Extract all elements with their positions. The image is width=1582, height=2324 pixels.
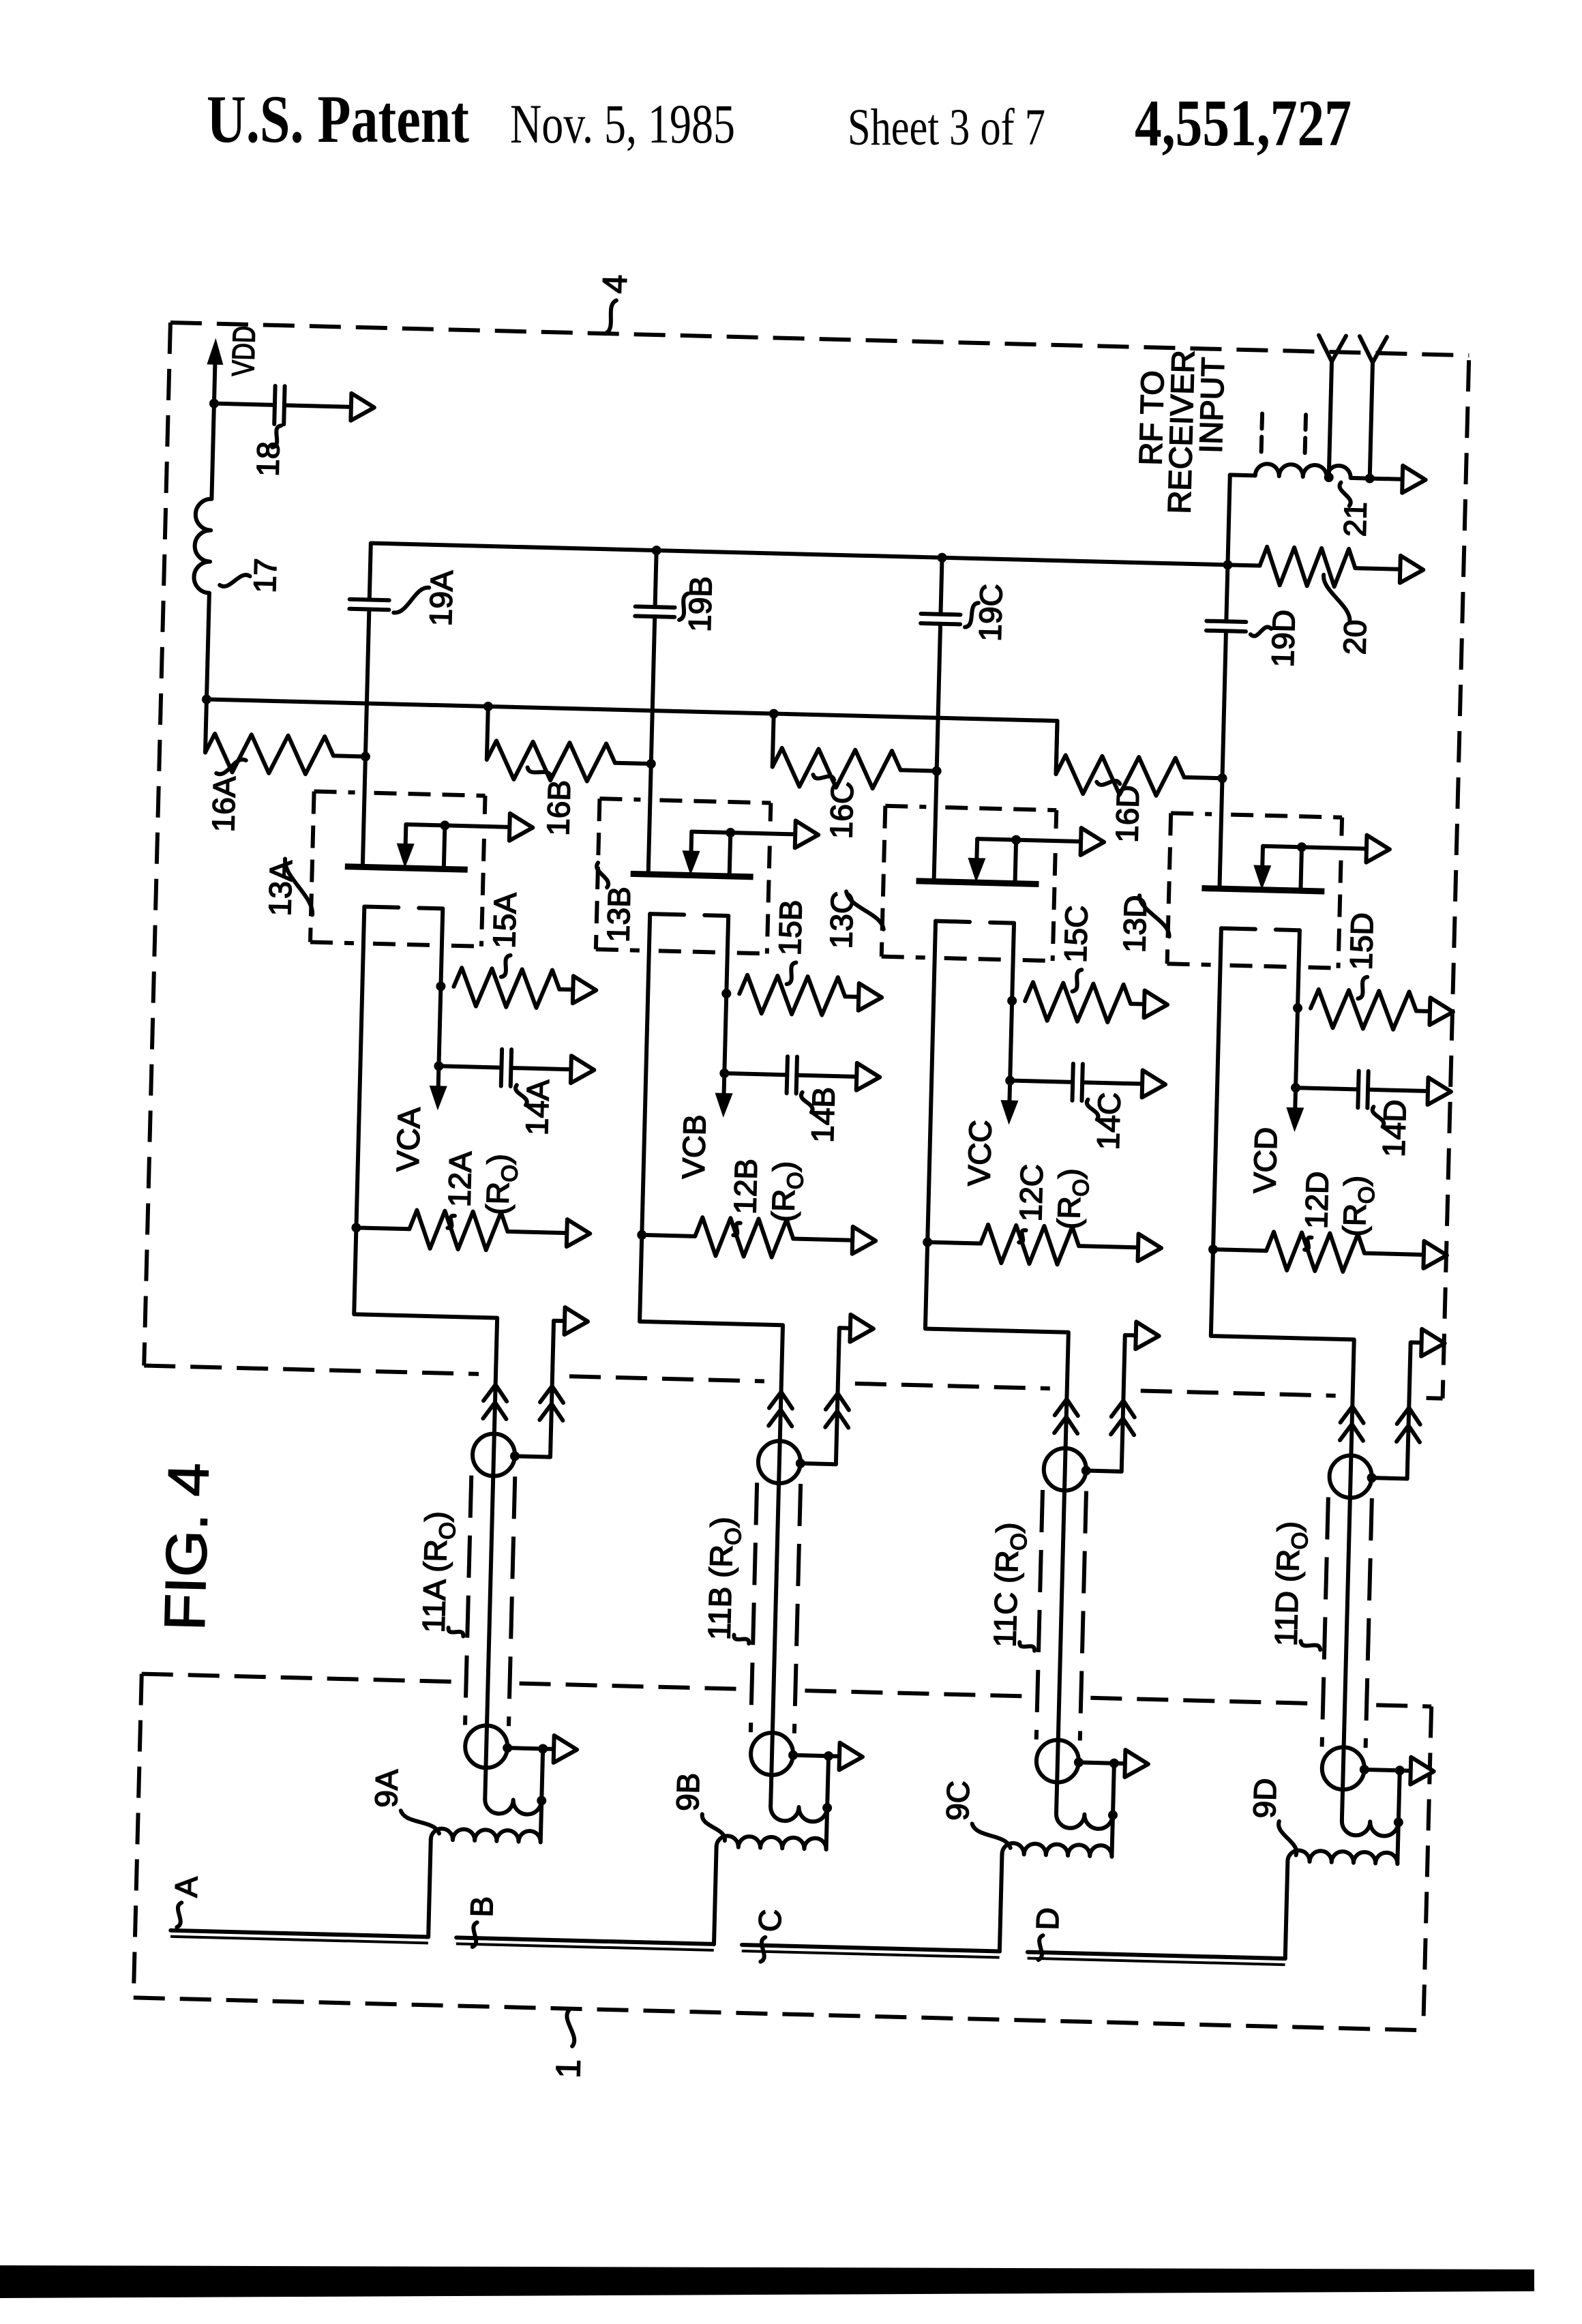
label 17: [220, 557, 283, 593]
wire top bus (19A-19D): [371, 543, 1228, 565]
label D: [1029, 1907, 1066, 1961]
wire gate-2 to terminal: [445, 825, 509, 826]
svg-text:U.S. Patent: U.S. Patent: [207, 81, 469, 157]
terminal arrow (TL upper C): [1135, 1322, 1159, 1350]
svg-text:(RO): (RO): [765, 1161, 808, 1223]
svg-text:13A: 13A: [262, 860, 299, 917]
svg-text:19C: 19C: [972, 584, 1009, 642]
label 16D: [1095, 780, 1146, 843]
terminal arrow (15D): [1429, 998, 1453, 1026]
capacitor 19A: [346, 543, 391, 757]
node 14D junction: [1291, 1083, 1300, 1092]
svg-text:11B (RO): 11B (RO): [701, 1517, 746, 1641]
chevron arrows (TL side A): [539, 1386, 563, 1420]
terminal arrow (12D): [1423, 1241, 1447, 1269]
terminal arrow (18 bypass): [350, 393, 374, 421]
label C: [751, 1909, 788, 1963]
antenna terminal 1: [1315, 336, 1346, 483]
resistor 16C: [772, 714, 938, 790]
label 11B (Ro): [701, 1517, 752, 1643]
label 13C: [823, 891, 884, 950]
capacitor 19B: [631, 550, 676, 764]
label 16B: [526, 767, 577, 836]
resistor 12B: [642, 1216, 853, 1260]
wire TL side arm lower A: [541, 1748, 543, 1800]
svg-text:VCB: VCB: [675, 1114, 712, 1180]
capacitor 14D: [1295, 1069, 1428, 1109]
resistor 12C: [927, 1223, 1138, 1267]
svg-text:18: 18: [250, 441, 286, 477]
wire source lead A down: [438, 986, 441, 1066]
inductor 17: [194, 403, 214, 593]
power symbol VDD (arrow): [206, 338, 224, 404]
wire TL side arm lower D: [1399, 1770, 1400, 1822]
chevron arrows (TL feed D): [1340, 1406, 1364, 1441]
svg-text:15C: 15C: [1058, 905, 1094, 964]
svg-text:13C: 13C: [823, 891, 860, 949]
label 13A: [262, 859, 314, 917]
label B: [463, 1896, 500, 1948]
wire gate-2 to terminal: [1302, 847, 1367, 848]
label 13B: [595, 863, 638, 942]
label 16A: [205, 758, 246, 833]
input trace C: [742, 1945, 1000, 1958]
transistor 13C: [913, 771, 1041, 1001]
input trace D: [1028, 1952, 1285, 1965]
wire TL side arm upper B: [836, 1328, 850, 1464]
svg-text:19D: 19D: [1265, 609, 1302, 668]
resistor 15B: [739, 974, 859, 1015]
terminal arrow (RF output top): [1402, 466, 1426, 494]
wire drain lead D down: [1213, 1002, 1219, 1249]
terminal arrow (TL bottom D): [1410, 1757, 1434, 1785]
control input VCD (arrow): [1285, 1088, 1304, 1133]
svg-text:12D: 12D: [1298, 1171, 1335, 1230]
svg-text:15A: 15A: [486, 892, 523, 949]
terminal arrow (14A): [571, 1056, 595, 1084]
label 19C: [964, 583, 1009, 642]
capacitor 19C: [917, 557, 962, 771]
svg-text:16C: 16C: [823, 781, 860, 839]
node 15C junction: [1007, 996, 1017, 1005]
transistor 13D dashed enclosure: [1167, 813, 1343, 968]
terminal arrow (14C): [1142, 1070, 1166, 1098]
svg-text:INPUT: INPUT: [1193, 357, 1232, 453]
capacitor 18: [274, 386, 284, 424]
inductor 9C: [1000, 1813, 1113, 1954]
capacitor 14A: [438, 1047, 571, 1088]
svg-text:15B: 15B: [772, 899, 809, 956]
svg-text:9D: 9D: [1247, 1778, 1283, 1819]
chevron arrows (TL side C): [1111, 1400, 1135, 1435]
label 19B: [679, 576, 719, 632]
node 19D / 20 / 21 junction: [1223, 560, 1232, 569]
wire inductor 17 to lower bus: [207, 593, 209, 700]
node lower bus left: [202, 694, 211, 704]
label 15C: [1057, 905, 1094, 992]
chevron arrows (TL side D): [1397, 1407, 1420, 1442]
resistor 20: [1227, 546, 1401, 588]
svg-text:17: 17: [247, 558, 283, 593]
svg-text:15D: 15D: [1343, 912, 1379, 970]
label 13D: [1116, 895, 1170, 953]
svg-text:D: D: [1030, 1907, 1066, 1931]
svg-text:VDD: VDD: [225, 325, 262, 376]
terminal arrow (TL upper D): [1421, 1329, 1445, 1357]
svg-text:A: A: [168, 1876, 205, 1898]
wire node to inductor 21: [1227, 475, 1229, 565]
label 14C: [1086, 1092, 1127, 1150]
node 16B / gate junction: [646, 759, 656, 769]
wire 12B node to transmission line: [627, 1235, 785, 1806]
node top bus / 19B: [652, 546, 661, 555]
wire TL side arm lower B: [827, 1756, 829, 1808]
antenna terminal 2: [1356, 336, 1387, 483]
svg-text:19A: 19A: [423, 569, 460, 626]
label 20: [1322, 575, 1374, 655]
inductor 21: [1230, 463, 1403, 479]
label 9A: [368, 1768, 441, 1833]
wire VDD node to capacitor 18: [214, 404, 275, 405]
label A: [167, 1876, 204, 1928]
svg-text:1: 1: [549, 2059, 588, 2079]
transmission line 11A top transformer: [472, 1433, 551, 1478]
winding (TL secondary) A: [485, 1794, 547, 1815]
wire 12D node to transmission line: [1199, 1249, 1356, 1821]
svg-text:14B: 14B: [805, 1086, 841, 1143]
svg-text:11D (RO): 11D (RO): [1268, 1521, 1313, 1647]
label 12C (Ro): [1012, 1163, 1094, 1244]
label 11C (Ro): [987, 1522, 1038, 1651]
node 15A junction: [436, 981, 445, 991]
capacitor 14C: [1010, 1062, 1143, 1103]
wire gate-2 to terminal: [1016, 840, 1081, 841]
svg-text:19B: 19B: [682, 576, 719, 632]
label 15B: [771, 899, 809, 985]
wire drain lead A down: [356, 980, 362, 1227]
dashed tick marks (inner border remnants): [1262, 414, 1306, 453]
wire lower bus (16A-16D feed): [205, 700, 1058, 775]
transmission line 11C bottom transformer: [1036, 1740, 1126, 1784]
winding (TL secondary) D: [1341, 1816, 1403, 1836]
transistor 13A: [342, 756, 470, 987]
svg-text:VCD: VCD: [1247, 1127, 1283, 1193]
terminal arrow (12C): [1138, 1234, 1162, 1262]
svg-text:13D: 13D: [1116, 895, 1153, 953]
transistor 13C dashed enclosure: [882, 806, 1057, 961]
svg-text:9C: 9C: [940, 1780, 976, 1821]
svg-text:Sheet 3 of 7: Sheet 3 of 7: [848, 99, 1045, 156]
transmission line 11B bottom transformer: [750, 1732, 840, 1776]
svg-text:11C (RO): 11C (RO): [987, 1522, 1032, 1648]
node 16D / gate junction: [1217, 773, 1227, 783]
node 12B junction: [637, 1230, 646, 1240]
resistor 16B: [486, 706, 653, 783]
label 9D: [1246, 1778, 1298, 1856]
transmission line 11C (Ro): [1036, 1490, 1086, 1741]
svg-text:FIG. 4: FIG. 4: [152, 1462, 220, 1631]
label 21: [1337, 482, 1374, 537]
node lower bus tap B: [483, 702, 493, 711]
capacitor 19D: [1203, 565, 1248, 779]
capacitor 14B: [724, 1055, 857, 1095]
label 12B (Ro): [726, 1158, 808, 1237]
transmission line 11C top transformer: [1043, 1448, 1122, 1492]
resistor 12D: [1212, 1230, 1424, 1274]
wire 12C node to transmission line: [913, 1242, 1071, 1814]
resistor 12A: [356, 1208, 567, 1252]
label 9B: [669, 1772, 727, 1841]
transmission line 11D bottom transformer: [1322, 1746, 1412, 1791]
transmission line 11B top transformer: [758, 1440, 837, 1485]
terminal arrow (12B): [852, 1227, 876, 1255]
resistor 15C: [1024, 982, 1144, 1023]
label 1: [549, 2010, 589, 2079]
terminal arrow (TL bottom C): [1124, 1750, 1148, 1778]
terminal arrow (14B): [856, 1063, 880, 1091]
transmission line 11A (Ro): [465, 1476, 515, 1727]
wire capacitor 18 to terminal: [284, 405, 351, 406]
label 15A: [486, 892, 523, 977]
inductor 9D: [1285, 1819, 1399, 1961]
chevron arrows (TL feed B): [768, 1392, 792, 1427]
inductor 9B: [714, 1805, 827, 1947]
label 14A: [514, 1079, 556, 1136]
transmission line 11B (Ro): [751, 1483, 801, 1733]
node 14C junction: [1005, 1075, 1015, 1085]
chevron arrows (TL feed C): [1054, 1399, 1078, 1433]
control input VCA (arrow): [429, 1066, 448, 1111]
label 15D: [1342, 912, 1379, 999]
svg-text:16B: 16B: [540, 779, 577, 836]
wire drain lead C down: [927, 995, 934, 1242]
svg-text:VCC: VCC: [961, 1120, 998, 1187]
svg-text:(RO): (RO): [479, 1153, 522, 1215]
terminal arrow (gate-2 bias A): [509, 814, 533, 841]
label 12D (Ro): [1298, 1171, 1379, 1251]
terminal arrow (TL bottom B): [839, 1743, 863, 1771]
svg-text:(RO): (RO): [1337, 1175, 1379, 1237]
label 14D: [1371, 1099, 1413, 1158]
label 19D: [1250, 609, 1302, 668]
wire 12A node to transmission line: [342, 1227, 499, 1799]
node 15B junction: [721, 989, 731, 998]
label 19A: [393, 569, 460, 627]
terminal arrow (14D): [1427, 1077, 1451, 1105]
input trace A: [170, 1931, 428, 1943]
svg-text:12A: 12A: [441, 1150, 478, 1207]
svg-text:20: 20: [1337, 619, 1373, 655]
node 15D junction: [1293, 1003, 1302, 1013]
node 16A / gate junction: [361, 751, 370, 761]
terminal arrow (gate-2 bias D): [1366, 835, 1390, 863]
resistor 15A: [453, 968, 573, 1009]
transistor 13B: [627, 763, 756, 994]
label 11D (Ro): [1268, 1521, 1324, 1650]
svg-text:16D: 16D: [1109, 785, 1146, 844]
svg-text:9B: 9B: [670, 1772, 706, 1812]
svg-text:VCA: VCA: [390, 1107, 427, 1172]
node top bus / 19C: [937, 553, 946, 563]
winding (TL secondary) B: [771, 1802, 833, 1822]
wire TL side arm upper A: [550, 1321, 565, 1457]
node lower bus tap C: [769, 709, 779, 718]
control input VCC (arrow): [1000, 1080, 1019, 1125]
wire drain lead B down: [642, 987, 648, 1235]
node 12D junction: [1208, 1245, 1218, 1254]
svg-text:21: 21: [1337, 501, 1373, 537]
wire source lead C down: [1010, 1001, 1012, 1081]
terminal arrow (TL bottom A): [554, 1735, 578, 1763]
label 4: [595, 274, 634, 334]
chevron arrows (TL side B): [825, 1393, 849, 1428]
wire TL side arm upper C: [1122, 1335, 1136, 1472]
dashed box 1 (antenna element enclosure): [134, 1674, 1431, 2031]
label 9C: [939, 1780, 1012, 1847]
svg-text:4: 4: [595, 274, 634, 294]
wire source lead D down: [1296, 1008, 1298, 1088]
terminal arrow (15A): [573, 976, 597, 1004]
transmission line 11D top transformer: [1329, 1455, 1408, 1500]
control input VCB (arrow): [715, 1073, 734, 1118]
terminal arrow (after resistor 20): [1400, 556, 1424, 584]
resistor 16A: [205, 700, 367, 776]
svg-text:C: C: [751, 1909, 788, 1933]
label 12A (Ro): [441, 1150, 522, 1230]
chevron arrows (TL feed A): [483, 1384, 507, 1419]
svg-text:(RO): (RO): [1051, 1168, 1094, 1230]
node 14A junction: [434, 1061, 443, 1071]
node 14B junction: [719, 1069, 729, 1078]
wire source lead B down: [724, 994, 726, 1073]
svg-text:11A (RO): 11A (RO): [415, 1511, 460, 1634]
svg-text:13B: 13B: [600, 886, 637, 942]
terminal arrow (gate-2 bias C): [1081, 828, 1105, 856]
transmission line 11D (Ro): [1322, 1498, 1372, 1748]
terminal arrow (TL upper A): [565, 1307, 588, 1335]
input trace B: [456, 1937, 714, 1950]
transistor 13B dashed enclosure: [596, 799, 771, 953]
transistor 13A dashed enclosure: [310, 792, 486, 947]
terminal arrow (gate-2 bias B): [795, 820, 819, 848]
label 11A (Ro): [415, 1511, 466, 1637]
wire TL side arm lower C: [1113, 1763, 1114, 1815]
node 12C junction: [923, 1237, 932, 1247]
terminal arrow (15C): [1144, 990, 1168, 1018]
svg-text:14A: 14A: [519, 1079, 556, 1135]
resistor 16D: [1056, 721, 1224, 797]
svg-text:12C: 12C: [1013, 1163, 1049, 1222]
svg-text:16A: 16A: [205, 775, 242, 832]
svg-text:4,551,727: 4,551,727: [1135, 87, 1352, 160]
svg-text:B: B: [464, 1896, 500, 1918]
inductor 9A: [428, 1798, 541, 1939]
terminal arrow (12A): [567, 1219, 591, 1247]
svg-text:12B: 12B: [727, 1158, 764, 1215]
svg-text:Nov. 5, 1985: Nov. 5, 1985: [510, 93, 735, 155]
transmission line 11A bottom transformer: [464, 1725, 554, 1770]
wire TL side arm upper D: [1407, 1343, 1422, 1479]
node 12A junction: [351, 1223, 361, 1232]
dashed box 4 (upper circuit enclosure): [144, 323, 1469, 1399]
label 16C: [811, 775, 860, 839]
label RF TO RECEIVER INPUT: [1131, 349, 1231, 516]
terminal arrow (15B): [859, 983, 882, 1011]
transistor 13D: [1199, 778, 1327, 1009]
node VDD junction: [209, 398, 219, 408]
terminal arrow (TL upper B): [850, 1315, 874, 1343]
label 18: [250, 425, 286, 477]
svg-text:9A: 9A: [368, 1768, 404, 1808]
winding (TL secondary) C: [1056, 1809, 1118, 1830]
resistor 15D: [1310, 989, 1430, 1030]
label 14B: [800, 1086, 841, 1143]
node 16C / gate junction: [931, 766, 941, 775]
black scanner bar: [0, 2265, 1534, 2298]
wire gate-2 to terminal: [730, 833, 795, 834]
